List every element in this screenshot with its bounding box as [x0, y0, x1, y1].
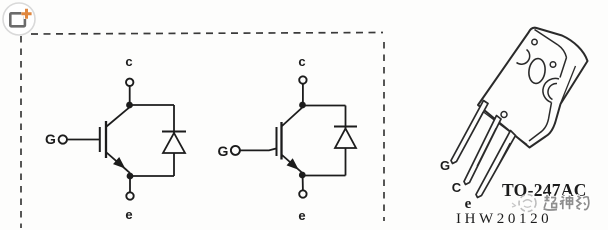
dashed module boundary top edge: [31, 33, 383, 35]
svg-text:G: G: [45, 131, 56, 147]
junction collector Q2: [299, 102, 306, 109]
emitter arrow Q2: [287, 159, 297, 169]
package pin mark bottom: [501, 112, 507, 118]
part number IHW20120: [456, 211, 552, 227]
collector terminal Q1: [126, 79, 133, 86]
wire gate Q1: [67, 139, 99, 141]
package mounting hole: [527, 58, 546, 85]
diode D2: [334, 106, 357, 176]
package pin mark right: [550, 62, 556, 68]
package lead label e: [465, 196, 472, 212]
junction emitter Q2: [299, 172, 306, 179]
dashed module boundary left edge: [20, 36, 22, 228]
package right notch: [543, 78, 559, 102]
gate bar Q2: [276, 127, 278, 156]
body bar Q2: [280, 122, 282, 160]
TO-247AC package body: [478, 28, 588, 148]
package pin mark top: [532, 39, 537, 44]
svg-text:c: c: [298, 54, 305, 69]
gate bar Q1: [99, 127, 101, 152]
package type label TO-247AC: [502, 180, 587, 200]
wire collector Q2: [302, 84, 304, 105]
package lead label C: [452, 180, 462, 195]
package lead e: [476, 131, 516, 198]
package right chamfer line: [561, 66, 576, 104]
watermark logo: [512, 195, 536, 212]
wire bottom from diode D1: [130, 175, 174, 177]
package left notch: [517, 50, 530, 65]
body bar Q1: [105, 121, 107, 158]
junction collector Q1: [126, 102, 133, 109]
IGBT Q1: [45, 54, 174, 222]
svg-text:IHW20120: IHW20120: [456, 211, 552, 227]
IGBT Q2: [218, 54, 346, 223]
svg-text:C: C: [452, 180, 462, 195]
diode D1: [162, 105, 186, 176]
wire top to diode D1: [130, 104, 175, 106]
wire gate Q2: [240, 149, 276, 151]
gate terminal Q1: [59, 135, 67, 143]
dashed module boundary right edge: [383, 42, 385, 221]
package bottom band: [482, 111, 528, 145]
emitter arrow Q1: [114, 158, 124, 168]
emitter diagonal Q1: [107, 153, 131, 174]
package lead G: [451, 101, 488, 164]
collector diagonal Q2: [282, 107, 303, 126]
package front top-right corner: [558, 45, 567, 58]
svg-text:G: G: [440, 158, 450, 173]
gate terminal Q2: [231, 146, 240, 155]
svg-text:G: G: [218, 143, 229, 159]
wire emitter Q1: [129, 176, 131, 192]
watermark text: [544, 195, 589, 210]
package lead C: [464, 116, 501, 185]
junction emitter Q1: [127, 173, 134, 180]
emitter diagonal Q2: [282, 155, 303, 174]
svg-text:e: e: [465, 196, 472, 212]
collector terminal Q2: [299, 76, 306, 83]
package lead label G: [440, 158, 450, 173]
collector diagonal Q1: [107, 107, 130, 127]
svg-text:e: e: [298, 208, 305, 223]
wire top to diode D2: [303, 105, 346, 107]
wire collector Q1: [129, 86, 131, 105]
emitter terminal Q1: [126, 192, 133, 199]
emitter terminal Q2: [299, 190, 306, 197]
svg-text:c: c: [125, 54, 132, 69]
package front-right edge: [529, 58, 567, 142]
svg-text:e: e: [125, 207, 132, 222]
package front top edge: [535, 30, 559, 46]
wire bottom from diode D2: [302, 175, 345, 177]
screenshot badge icon: [3, 3, 35, 35]
wire emitter Q2: [302, 175, 304, 190]
